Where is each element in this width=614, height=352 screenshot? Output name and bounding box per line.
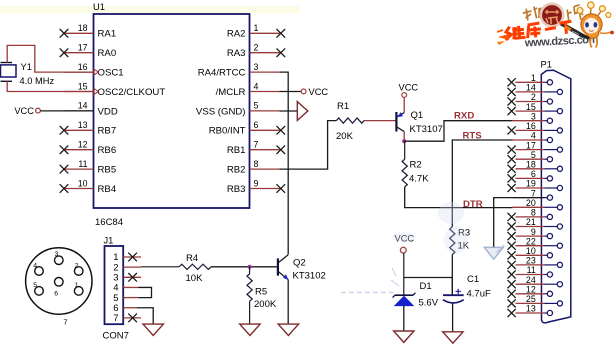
svg-text:R2: R2 [410, 160, 422, 171]
wire RB2 to R1 [280, 121, 337, 170]
resistor R4 [179, 264, 211, 269]
U1 pin 16 OSC1 [64, 62, 124, 79]
svg-text:D1: D1 [420, 281, 432, 292]
svg-text:8: 8 [254, 159, 259, 169]
svg-text:5: 5 [254, 101, 259, 111]
svg-text:1: 1 [75, 282, 79, 289]
svg-text:10K: 10K [186, 273, 204, 284]
R2 value 4.7K [409, 174, 429, 185]
P1 pin 5 [508, 150, 553, 163]
svg-text:22: 22 [526, 236, 536, 246]
ground below D1 [394, 331, 414, 342]
wire C1 to ground [452, 303, 454, 331]
wire P1 pin7 to ground [494, 198, 545, 248]
wire VCC to VDD pin 14 [41, 110, 94, 112]
svg-text:17: 17 [526, 140, 536, 150]
svg-text:11: 11 [527, 265, 536, 275]
wire Q1 collector to node [403, 132, 405, 142]
svg-text:16: 16 [526, 121, 536, 131]
svg-text:R5: R5 [255, 287, 267, 298]
R3 reference label [458, 228, 470, 239]
wire J1 pins 4-5 link [139, 287, 152, 297]
U1 pin 7 RB1 [227, 140, 285, 157]
wire Q2 emitter to ground [287, 280, 289, 325]
connector P1 DB25 body [541, 70, 571, 323]
P1 pin 3 [512, 111, 552, 123]
net label RTS [463, 130, 483, 141]
wire R3 to C1 node [451, 255, 453, 295]
svg-text:CON7: CON7 [103, 331, 129, 342]
watermark haze over VCC at D1 [392, 232, 416, 242]
svg-text:3: 3 [254, 62, 259, 72]
svg-text:RTS: RTS [463, 130, 483, 141]
svg-text:DTR: DTR [463, 199, 483, 210]
U1 part value 16C84 [95, 217, 123, 228]
svg-text:OSC2/CLKOUT: OSC2/CLKOUT [98, 87, 166, 98]
U1 pin 17 RA0 [60, 43, 116, 60]
svg-text:Y1: Y1 [21, 62, 32, 72]
wire RA4/RTCC to Q2 collector [280, 72, 289, 254]
P1 pin 7 [512, 188, 552, 200]
svg-text:12: 12 [78, 140, 88, 150]
C1 value 4.7uF [467, 289, 491, 300]
svg-text:VCC: VCC [14, 106, 34, 116]
U1 pin 5 VSS (GND) [196, 101, 280, 118]
svg-text:RA2: RA2 [227, 29, 246, 40]
OSC1 pin clock chevron [94, 69, 98, 75]
wire Y1 bottom to OSC2 [7, 81, 93, 91]
wire VCC to D1 cathode [403, 253, 405, 295]
svg-text:KT3102: KT3102 [293, 271, 326, 282]
D1 reference label [420, 281, 432, 292]
J1 reference label [104, 236, 114, 246]
wire RTS net [452, 140, 512, 227]
wire node to C1 [451, 278, 453, 296]
junction R4 R5 node [248, 265, 252, 269]
P1 pin 22 [508, 236, 563, 249]
U1 pin 2 RA3 [227, 43, 285, 60]
P1 pin 25 [508, 294, 563, 307]
wire J1 pin2 to R4 [141, 266, 179, 268]
svg-text:4: 4 [531, 131, 536, 141]
svg-text:200K: 200K [254, 299, 277, 310]
P1 pin 2 [508, 92, 553, 105]
svg-text:4: 4 [254, 81, 259, 91]
wire node to R5 [249, 267, 251, 274]
resistor R5 [247, 274, 252, 301]
svg-text:Q2: Q2 [293, 258, 306, 269]
svg-text:16C84: 16C84 [95, 217, 123, 228]
svg-text:14: 14 [526, 83, 536, 93]
svg-text:20K: 20K [336, 131, 354, 142]
P1 pin 24 [508, 275, 563, 288]
svg-text:8: 8 [531, 208, 536, 218]
svg-text:/MCLR: /MCLR [216, 87, 246, 98]
U1 pin 4 /MCLR [216, 81, 280, 98]
svg-text:U1: U1 [93, 2, 105, 12]
P1 pin 14 [508, 83, 563, 96]
svg-text:17: 17 [78, 43, 88, 53]
IC U1 16C84 body [94, 14, 250, 208]
svg-text:P1: P1 [541, 60, 552, 70]
svg-text:RB3: RB3 [227, 184, 246, 195]
Q2 reference label [293, 258, 306, 269]
ground at P1 pin7 (faded) [484, 245, 504, 259]
Y1 reference label [21, 62, 32, 72]
Q1 reference label [411, 110, 424, 121]
svg-text:20: 20 [526, 198, 536, 208]
svg-text:13: 13 [526, 304, 536, 314]
svg-text:6: 6 [254, 120, 259, 130]
wire Q1 emitter to VCC [403, 97, 405, 112]
P1 pin 8 [508, 208, 553, 221]
P1 pin 11 [508, 265, 553, 278]
crystal Y1 body [1, 65, 17, 77]
ground right-pointing at VSS [297, 102, 308, 121]
svg-text:2: 2 [531, 92, 536, 102]
P1 reference label [541, 60, 552, 70]
svg-text:5: 5 [531, 150, 536, 160]
svg-text:4.7uF: 4.7uF [467, 289, 491, 300]
svg-text:7: 7 [254, 140, 259, 150]
P1 pin 21 [508, 217, 563, 230]
svg-text:12: 12 [526, 285, 536, 295]
svg-text:2: 2 [254, 43, 259, 53]
J1 pin 3 [113, 273, 141, 284]
U1 pin 8 RB2 [227, 159, 280, 176]
U1 pin 1 RA2 [227, 23, 285, 40]
watermark haze over R3 [438, 202, 468, 254]
svg-text:3: 3 [55, 251, 59, 258]
svg-text:7: 7 [63, 317, 67, 326]
svg-text:25: 25 [526, 294, 536, 304]
U1 pin 10 RB4 [60, 178, 117, 195]
J1 pin 7 [113, 313, 141, 324]
resistor R3 [450, 227, 455, 255]
net label DTR [463, 199, 483, 210]
svg-text:1: 1 [531, 73, 536, 83]
svg-text:19: 19 [526, 179, 536, 189]
ground below C1 [443, 332, 463, 343]
resistor R1 [336, 118, 364, 123]
svg-text:15: 15 [78, 81, 88, 91]
svg-text:4.7K: 4.7K [409, 174, 429, 185]
DIN socket pin numbers [33, 251, 78, 326]
watermark dashes near D1 [341, 268, 399, 293]
VCC power port at VDD [14, 106, 40, 116]
wire VSS to ground [280, 110, 298, 112]
transistor Q2 [278, 255, 288, 280]
J1 pin 1 [113, 252, 141, 263]
R5 reference label [255, 287, 267, 298]
U1 pin 14 VDD [64, 101, 118, 118]
svg-text:VCC: VCC [309, 87, 329, 97]
svg-text:4.0 MHz: 4.0 MHz [20, 76, 55, 86]
svg-text:21: 21 [526, 217, 536, 227]
ground below J1 pin6 [143, 324, 163, 335]
P1 pin 17 [508, 140, 563, 153]
P1 pin 10 [508, 246, 553, 259]
wire R2 to DTR [405, 187, 513, 208]
C1 reference label [467, 274, 479, 285]
connector J1 body [105, 246, 124, 324]
junction Q1 collector node [402, 139, 406, 143]
P1 pin 4 [512, 131, 552, 143]
P1 pin 1 [508, 73, 553, 86]
P1 pin 16 [508, 121, 563, 134]
resistor R2 [402, 159, 407, 187]
svg-text:C1: C1 [467, 274, 479, 285]
svg-text:RA0: RA0 [98, 48, 117, 59]
svg-text:RB6: RB6 [98, 145, 117, 156]
R4 value 10K [186, 273, 204, 284]
svg-text:2: 2 [75, 262, 79, 269]
R1 value 20K [336, 131, 354, 142]
R1 reference label [337, 101, 349, 112]
Q2 part KT3102 [293, 271, 326, 282]
net label RXD [454, 111, 474, 122]
svg-text:RA1: RA1 [98, 29, 117, 40]
svg-text:RB5: RB5 [98, 165, 117, 176]
wire R4 to Q2 base [211, 266, 278, 268]
svg-text:RXD: RXD [454, 111, 474, 122]
svg-text:R4: R4 [186, 253, 198, 264]
R2 reference label [410, 160, 422, 171]
J1 pin 6 [113, 303, 137, 314]
wire node to D1 [404, 277, 453, 279]
svg-text:VDD: VDD [98, 106, 118, 117]
svg-text:RB4: RB4 [98, 184, 117, 195]
crystal Y1 plates [1, 63, 13, 82]
svg-text:11: 11 [78, 159, 87, 169]
svg-text:RA4/RTCC: RA4/RTCC [198, 68, 246, 79]
VCC power port at Q1 emitter [399, 83, 419, 98]
zener diode D1 [393, 293, 416, 306]
VCC power port at /MCLR [301, 87, 328, 97]
U1 pin 15 OSC2/CLKOUT [64, 81, 165, 98]
svg-text:RB2: RB2 [227, 165, 246, 176]
svg-text:23: 23 [526, 256, 536, 266]
R3 value 1K [458, 241, 470, 252]
wire R5 to ground [249, 301, 251, 324]
Q1 part KT3107 [410, 124, 443, 135]
R4 reference label [186, 253, 198, 264]
wire Y1 top to OSC1 [7, 45, 93, 72]
P1 pin 13 [508, 304, 553, 317]
capacitor C1 [443, 289, 464, 303]
svg-text:VCC: VCC [399, 83, 419, 93]
svg-text:14: 14 [78, 101, 88, 111]
svg-text:RB0/INT: RB0/INT [209, 126, 246, 137]
DIN-7 socket face [26, 248, 92, 314]
U1 pin 13 RB7 [60, 120, 116, 137]
J1 part CON7 [103, 331, 129, 342]
P1 pin 12 [508, 285, 553, 298]
P1 pin 6 [508, 169, 553, 182]
svg-text:15: 15 [526, 102, 536, 112]
Y1 value 4.0 MHz [20, 76, 55, 86]
svg-text:10: 10 [526, 246, 536, 256]
svg-text:KT3107: KT3107 [410, 124, 443, 135]
svg-text:18: 18 [78, 23, 88, 33]
svg-text:RB1: RB1 [227, 145, 246, 156]
U1 pin 9 RB3 [227, 178, 285, 195]
OSC2 pin clock chevron [94, 89, 98, 95]
P1 pin 9 [508, 227, 553, 240]
D1 value 5.6V [419, 298, 439, 309]
watermark dzsc logo [497, 2, 614, 49]
P1 pin 18 [508, 160, 563, 173]
U1 pin 18 RA1 [60, 23, 116, 40]
U1 pin 3 RA4/RTCC [198, 62, 280, 79]
svg-text:R1: R1 [337, 101, 349, 112]
R5 value 200K [254, 299, 277, 310]
svg-text:9: 9 [531, 227, 536, 237]
svg-text:7: 7 [113, 313, 118, 324]
svg-text:7: 7 [531, 188, 536, 198]
P1 pin 23 [508, 256, 563, 269]
svg-text:6: 6 [531, 169, 536, 179]
svg-text:3: 3 [531, 111, 536, 121]
svg-text:5: 5 [33, 282, 37, 289]
svg-text:4: 4 [33, 262, 37, 269]
P1 pin 20 [512, 198, 562, 210]
wire D1 anode to ground [403, 306, 405, 331]
svg-text:9: 9 [254, 178, 259, 188]
svg-text:6: 6 [54, 291, 58, 298]
J1 pin 4 [113, 283, 138, 294]
svg-text:24: 24 [526, 275, 536, 285]
svg-text:RB7: RB7 [98, 126, 117, 137]
VCC power port at D1 [395, 234, 415, 254]
svg-text:16: 16 [78, 62, 88, 72]
svg-text:18: 18 [526, 160, 536, 170]
J1 pin 2 [113, 262, 141, 273]
wire /MCLR to VCC [280, 91, 302, 93]
J1 pin 5 [113, 293, 138, 304]
P1 pin 15 [508, 102, 563, 115]
svg-text:13: 13 [78, 120, 88, 130]
wire RXD net [404, 121, 512, 142]
wire R1 to Q1 base [364, 120, 396, 122]
svg-text:J1: J1 [104, 236, 114, 246]
svg-text:10: 10 [78, 178, 88, 188]
U1 pin 6 RB0/INT [209, 120, 285, 137]
U1 reference label [93, 2, 105, 12]
U1 pin 11 RB5 [60, 159, 116, 176]
wire Q1 node to R2 [404, 141, 406, 159]
ground below R5 [240, 324, 260, 335]
U1 pin 12 RB6 [60, 140, 116, 157]
P1 pin 19 [508, 179, 563, 192]
wire J1 pin6 to ground [137, 308, 153, 324]
svg-text:Q1: Q1 [411, 110, 424, 121]
svg-text:5.6V: 5.6V [419, 298, 439, 309]
svg-text:VSS (GND): VSS (GND) [196, 106, 246, 117]
svg-text:OSC1: OSC1 [98, 68, 124, 79]
svg-text:1: 1 [254, 23, 259, 33]
transistor Q1 [396, 112, 404, 132]
faint jpeg band [0, 6, 300, 13]
ground below Q2 [278, 324, 298, 335]
svg-text:RA3: RA3 [227, 48, 246, 59]
